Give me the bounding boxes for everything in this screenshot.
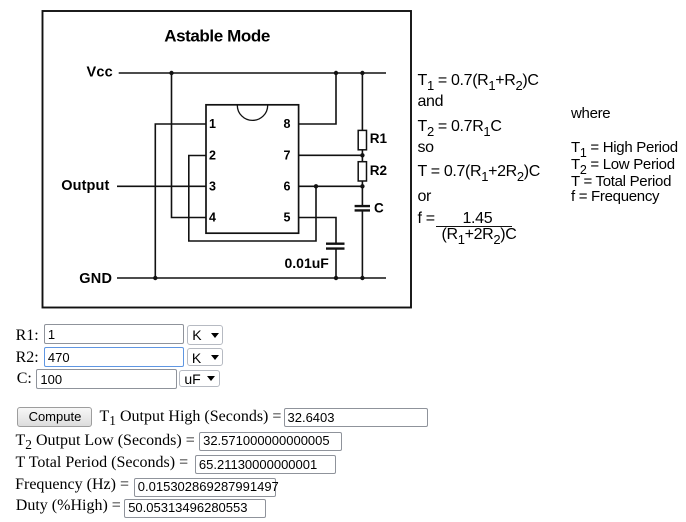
where <box>571 105 610 122</box>
output frequency <box>134 478 276 497</box>
where f <box>571 188 659 205</box>
input C <box>36 369 177 388</box>
resistor R2 body <box>358 162 366 181</box>
where T <box>571 173 671 190</box>
formula fraction bar <box>436 226 512 228</box>
svg-text:8: 8 <box>284 117 291 131</box>
formula and <box>418 93 444 111</box>
capacitor C plates <box>355 206 370 210</box>
output duty <box>124 499 266 518</box>
svg-text:4: 4 <box>209 210 216 224</box>
wire Vcc rail <box>119 72 386 74</box>
wire Vcc to R1 top <box>361 73 363 130</box>
select R1 unit K <box>187 325 223 345</box>
wire GND rail <box>117 277 386 279</box>
svg-text:R1: R1 <box>370 131 388 146</box>
wire pin8 to Vcc <box>299 73 336 124</box>
svg-text:0.01uF: 0.01uF <box>285 255 330 271</box>
input R1 <box>44 324 184 344</box>
output T <box>195 455 336 474</box>
label Duty <box>16 497 121 515</box>
label T2 Output Low <box>16 432 195 453</box>
capacitor 0.01uF plates <box>326 244 345 249</box>
wire pin5 to 0.01uF cap <box>299 218 336 279</box>
svg-text:7: 7 <box>284 148 291 162</box>
svg-text:R2: R2 <box>370 163 387 178</box>
label T Total Period <box>16 454 189 472</box>
wire C bottom to GND <box>361 210 363 278</box>
svg-text:6: 6 <box>284 179 291 193</box>
junction node GND/0.01uF <box>334 276 338 280</box>
where T1 <box>571 139 678 159</box>
wire pin6 to pin2 under IC <box>189 156 316 242</box>
junction node Vcc/pin8 <box>334 71 338 75</box>
input R2 (focused) <box>44 347 185 368</box>
label R1: <box>16 327 39 345</box>
junction node GND/C <box>360 276 364 280</box>
wire pin1 to GND <box>155 124 206 278</box>
junction node GND/pin1 <box>153 276 157 280</box>
select R2 unit K <box>187 348 224 367</box>
label T1 Output High <box>100 408 282 429</box>
junction node pin6/pin2 <box>314 184 318 188</box>
wire Vcc to pin4 <box>172 73 207 218</box>
outer border box <box>43 11 412 308</box>
formula T1 <box>418 72 539 92</box>
formula denominator <box>442 226 517 246</box>
svg-text:GND: GND <box>79 271 112 287</box>
output T2 <box>199 432 342 451</box>
where T2 <box>571 156 675 176</box>
junction node Vcc/pin4 <box>169 71 173 75</box>
svg-text:3: 3 <box>209 179 216 193</box>
resistor R1 body <box>358 130 366 149</box>
svg-text:5: 5 <box>284 210 291 224</box>
junction node pin7/R1/R2 <box>360 153 364 157</box>
label Frequency <box>15 476 129 494</box>
wire output to pin3 <box>117 185 206 187</box>
formula numerator 1.45 <box>463 210 493 228</box>
svg-text:Astable Mode: Astable Mode <box>164 26 270 45</box>
svg-text:2: 2 <box>209 148 216 162</box>
junction node Vcc/R1 <box>360 71 364 75</box>
formula or <box>418 188 432 206</box>
wire R1-R2 node pin7 <box>299 150 362 162</box>
output T1 <box>284 408 429 427</box>
formula so <box>418 139 434 157</box>
IC notch <box>237 105 267 120</box>
svg-text:1: 1 <box>209 117 216 131</box>
formula T <box>418 163 540 183</box>
svg-text:Output: Output <box>61 178 109 194</box>
svg-text:C: C <box>374 201 384 216</box>
wire R2 bottom to C top, pin6 <box>299 181 362 206</box>
junction node pin6/R2/C <box>360 184 364 188</box>
label C: <box>17 370 32 388</box>
button Compute <box>17 407 92 427</box>
formula f equals <box>418 210 435 228</box>
svg-text:Vcc: Vcc <box>87 64 113 80</box>
IC U1 body <box>206 105 299 233</box>
formula T2 <box>418 118 502 138</box>
label R2: <box>16 349 39 367</box>
select C unit uF <box>179 370 220 388</box>
